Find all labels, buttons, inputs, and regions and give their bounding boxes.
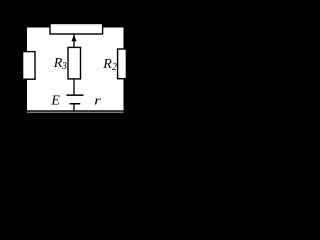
svg-text:2: 2 [112,62,117,73]
svg-text:R: R [102,57,112,72]
svg-text:3: 3 [61,61,67,72]
svg-text:r: r [94,94,102,108]
svg-text:E: E [50,94,60,109]
